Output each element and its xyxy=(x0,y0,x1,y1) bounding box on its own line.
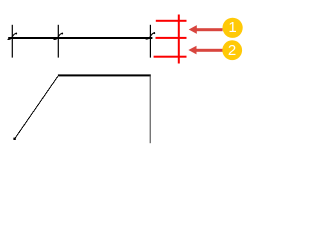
lower figure: thin vertical line xyxy=(150,75,151,143)
red ladder vertical line xyxy=(178,15,180,64)
integral arrowhead at tick 2 xyxy=(54,33,63,39)
dimension line (black horizontal) xyxy=(8,37,152,39)
callout circle 1 xyxy=(223,18,243,38)
svg-text:1: 1 xyxy=(228,19,236,36)
integral arrowhead at tick 1 xyxy=(8,33,17,39)
extension tick 2 xyxy=(58,25,59,58)
callout arrow 2 (points left) xyxy=(188,46,223,55)
integral arrowhead at tick 3 xyxy=(146,33,155,39)
callout circle 2 xyxy=(222,40,242,60)
extension tick 3 xyxy=(150,25,151,58)
lower figure: horizontal line xyxy=(58,74,151,76)
svg-text:2: 2 xyxy=(228,42,236,59)
lower figure: diagonal line xyxy=(14,76,58,139)
red ladder middle rung xyxy=(156,37,187,39)
lower figure: start blob of diagonal xyxy=(13,138,15,140)
red ladder bottom rung xyxy=(154,56,187,58)
red ladder top rung xyxy=(156,20,187,22)
extension tick 1 xyxy=(12,25,13,58)
callout arrow 1 (points left) xyxy=(189,25,223,34)
